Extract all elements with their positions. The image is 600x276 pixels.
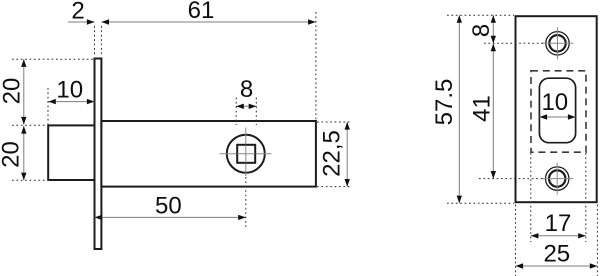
17 dim [531, 235, 586, 237]
svg-text:10: 10 [541, 89, 568, 116]
lower 20 dim [23, 126, 25, 180]
svg-text:10: 10 [56, 77, 83, 104]
dim line top (2 and 61) [68, 21, 95, 23]
spindle square hole [237, 145, 255, 163]
latch body (long rectangle) [101, 121, 316, 187]
faceplate (side view vertical bar) [95, 59, 102, 250]
8 dim right [492, 15, 494, 43]
cutout rounded rect [539, 78, 575, 143]
svg-text:20: 20 [0, 78, 26, 105]
top screw hole [546, 32, 569, 55]
svg-text:17: 17 [545, 210, 572, 237]
cutout width arrow [540, 116, 576, 118]
41 dim [492, 44, 494, 179]
crosshair vertical [245, 128, 247, 177]
25 dim [516, 265, 598, 267]
svg-text:41: 41 [469, 95, 496, 122]
dotted verticals below plate [515, 205, 517, 276]
extension dotted horizontals left [12, 58, 93, 60]
plate front [516, 16, 597, 202]
svg-text:8: 8 [468, 24, 495, 37]
spindle circle [227, 135, 265, 173]
dashed cutout outline [531, 71, 586, 152]
8 dim (square) [236, 105, 256, 107]
svg-text:8: 8 [240, 76, 253, 103]
svg-text:50: 50 [155, 192, 182, 219]
crosshair horizontal [220, 153, 272, 155]
22,5 dim [346, 122, 348, 187]
dotted extensions right view horizontals [447, 14, 514, 16]
svg-text:61: 61 [188, 0, 215, 24]
svg-text:22,5: 22,5 [319, 130, 346, 177]
latch bolt (left rectangle) [48, 125, 94, 180]
svg-text:57.5: 57.5 [431, 79, 458, 126]
extension dotted for faceplate thickness [94, 26, 96, 56]
57.5 dim [458, 15, 460, 203]
50 dim [95, 216, 246, 218]
bottom screw hole [546, 167, 569, 190]
svg-text:20: 20 [0, 141, 25, 168]
svg-text:25: 25 [543, 241, 570, 268]
upper 20 dim [23, 59, 25, 124]
extension dotted body right top [315, 12, 317, 120]
10 dim (bolt protrusion) [48, 101, 94, 103]
svg-text:2: 2 [71, 0, 84, 25]
